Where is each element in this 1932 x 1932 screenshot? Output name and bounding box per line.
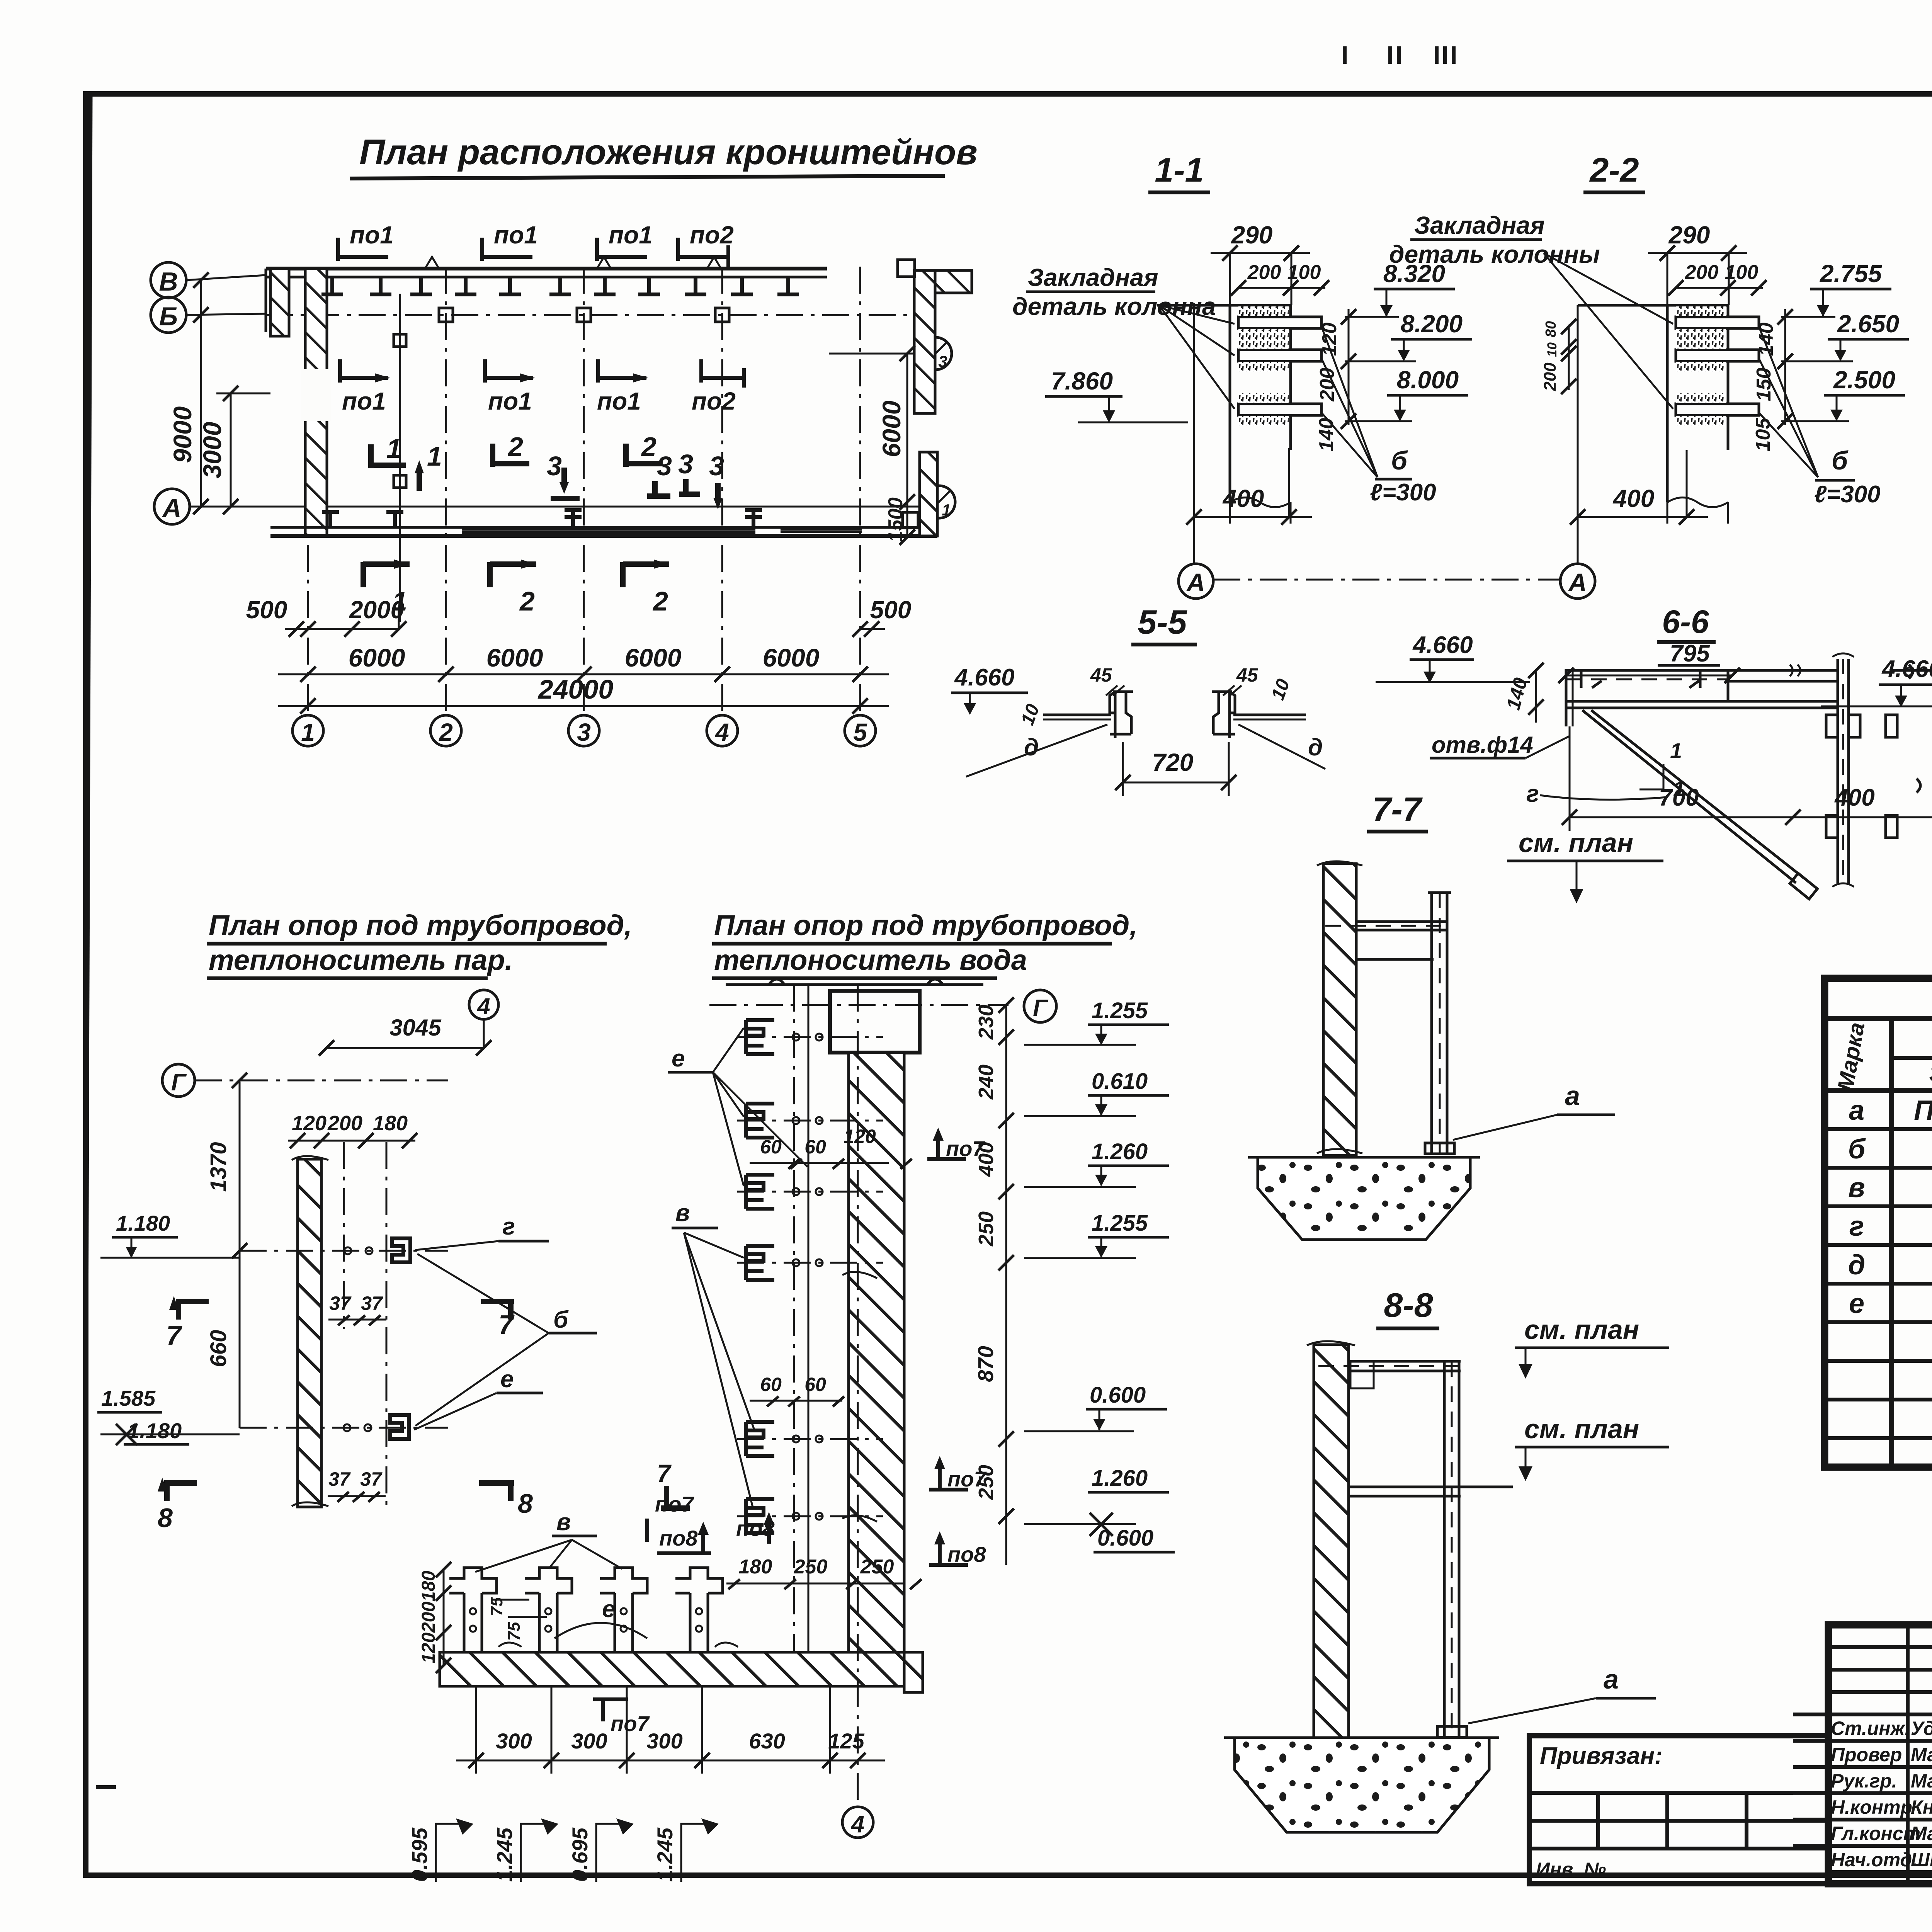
svg-text:см. план: см. план: [1524, 1315, 1639, 1345]
svg-text:2: 2: [652, 586, 668, 616]
dim 3045: [319, 1015, 492, 1056]
svg-text:деталь колонна: деталь колонна: [1012, 293, 1216, 320]
svg-text:37: 37: [328, 1468, 351, 1490]
right bottom post square: [903, 512, 918, 528]
svg-text:по1: по1: [342, 387, 386, 415]
svg-text:1.180: 1.180: [128, 1418, 182, 1443]
bracket v6: [737, 1499, 883, 1533]
dim 140 rotated: [1502, 663, 1544, 723]
section mark 3 pair: [647, 449, 700, 498]
svg-text:3: 3: [657, 451, 672, 481]
svg-text:в: в: [556, 1509, 571, 1536]
section mark 2 bottom a: [490, 560, 536, 616]
svg-text:9000: 9000: [168, 406, 197, 463]
anchor plate 3: [1676, 404, 1759, 415]
svg-text:400: 400: [1222, 485, 1264, 512]
svg-text:6000: 6000: [486, 643, 543, 672]
anchor plate 1: [1238, 317, 1321, 328]
pilaster square 3: [715, 308, 729, 322]
svg-text:1.260: 1.260: [1092, 1466, 1148, 1491]
svg-text:400: 400: [1612, 485, 1655, 512]
dim row 120 200 180: [288, 1112, 417, 1148]
label a: [1468, 1664, 1656, 1723]
svg-text:1.245: 1.245: [492, 1827, 517, 1882]
elevation 2.755: [1781, 260, 1891, 317]
label e with fan: [668, 1028, 808, 1186]
support t4: [675, 1568, 723, 1652]
base plate: [1425, 1143, 1454, 1154]
foundation: [1235, 1738, 1489, 1832]
section flag 8 right: [479, 1483, 533, 1519]
svg-text:1500: 1500: [884, 497, 907, 542]
label по2 mid: [692, 359, 744, 415]
privyazan block: [1529, 1736, 1828, 1884]
axis circle Б: [151, 297, 186, 333]
dim row 180 250 250: [726, 1556, 922, 1589]
bracket upright: [1428, 893, 1451, 1153]
table header split line: [1891, 1056, 1932, 1060]
top block: [830, 991, 920, 1053]
svg-text:А: А: [1186, 568, 1205, 597]
svg-text:3: 3: [577, 718, 591, 746]
section mark 1 bottom: [363, 560, 410, 616]
svg-text:180: 180: [418, 1571, 439, 1602]
dim 400: [1186, 448, 1312, 525]
axis circle А/1: [923, 486, 955, 518]
label по1 mid 2: [485, 359, 535, 415]
svg-text:А: А: [162, 493, 181, 523]
svg-text:720: 720: [1152, 748, 1194, 776]
dim 3000 vertical: [198, 386, 270, 514]
table Ведомость элементов outer border: [1825, 978, 1932, 1467]
svg-text:а: а: [1565, 1081, 1580, 1111]
svg-text:Штука: Штука: [1911, 1849, 1932, 1871]
left wall hatched: [305, 269, 327, 536]
label v with fan: [672, 1200, 754, 1507]
svg-text:0.600: 0.600: [1097, 1526, 1153, 1551]
pipe axis vertical left: [793, 985, 795, 1652]
svg-text:105: 105: [1752, 418, 1774, 452]
svg-text:см. план: см. план: [1519, 828, 1633, 858]
svg-text:8.000: 8.000: [1397, 366, 1459, 394]
left wall opening: [301, 369, 331, 421]
elevation 2.500: [1781, 366, 1905, 421]
svg-text:75: 75: [505, 1622, 524, 1641]
bracket e: [240, 1415, 448, 1439]
dim 6000 right vertical: [877, 346, 915, 510]
svg-text:Н.контр: Н.контр: [1831, 1796, 1912, 1818]
axis circle А: [154, 489, 190, 524]
bracket g: [240, 1238, 448, 1262]
elevation 1.260 b: [1024, 1466, 1169, 1536]
svg-text:37: 37: [360, 1468, 383, 1490]
svg-text:по1: по1: [597, 387, 641, 415]
svg-text:Б: Б: [159, 302, 178, 331]
svg-text:7.860: 7.860: [1051, 367, 1113, 395]
svg-text:60: 60: [760, 1374, 782, 1395]
label v bottom with fan: [475, 1509, 622, 1572]
svg-text:60: 60: [760, 1136, 782, 1158]
flag po7 b: [929, 1456, 987, 1491]
rotated elevation 0.695: [568, 1818, 634, 1882]
right post stub: [935, 270, 972, 293]
svg-text:в: в: [1848, 1172, 1865, 1203]
dim 1500 right vertical: [884, 497, 915, 545]
circled 4 top: [469, 990, 498, 1019]
main title: [350, 133, 978, 179]
svg-text:250: 250: [975, 1211, 998, 1247]
svg-text:3000: 3000: [198, 422, 226, 478]
svg-text:6000: 6000: [625, 643, 682, 672]
label см. план: [1507, 828, 1663, 903]
svg-text:7: 7: [498, 1310, 515, 1340]
svg-text:2.755: 2.755: [1820, 260, 1883, 287]
svg-text:4.660: 4.660: [1881, 656, 1932, 682]
svg-text:200: 200: [418, 1602, 439, 1633]
svg-text:120: 120: [418, 1633, 439, 1663]
elevation 0.600 b: [1094, 1526, 1175, 1552]
svg-text:3: 3: [547, 451, 562, 481]
left plate line: [1043, 714, 1111, 716]
svg-text:д: д: [1848, 1250, 1866, 1281]
dim 720: [1115, 742, 1236, 796]
elevation 8.000: [1345, 366, 1468, 421]
svg-text:4: 4: [477, 993, 490, 1019]
elevation 4.660: [1821, 656, 1932, 707]
dims 120 200 180 left rotated: [418, 1562, 451, 1673]
svg-text:240: 240: [975, 1065, 998, 1100]
flag po8 left: [657, 1522, 711, 1553]
svg-text:6000: 6000: [877, 400, 906, 457]
svg-text:6-6: 6-6: [1662, 604, 1709, 640]
column outline: [1157, 305, 1291, 502]
svg-text:60: 60: [804, 1136, 826, 1158]
label g: [415, 1213, 549, 1250]
dim 700 400: [1562, 726, 1932, 831]
dim row 6000x4: [278, 643, 889, 682]
dim 400: [1570, 450, 1708, 525]
label Закладная деталь колонна: [1012, 264, 1235, 409]
right bottom post hatched: [920, 452, 937, 536]
svg-text:300: 300: [571, 1729, 607, 1753]
svg-text:по8: по8: [659, 1526, 698, 1550]
dim 290: [1211, 221, 1310, 305]
wall hatched: [1314, 1345, 1349, 1747]
svg-text:630: 630: [749, 1729, 785, 1753]
svg-text:1.255: 1.255: [1092, 998, 1148, 1023]
dim 500 right: [852, 596, 911, 637]
dim row 60 60 120: [750, 1126, 912, 1169]
svg-text:1: 1: [942, 501, 951, 519]
dims 140 150 105 rotated: [1752, 309, 1793, 451]
label по2 top: [678, 221, 734, 269]
svg-text:8.200: 8.200: [1401, 310, 1463, 338]
label po7 small flag mid: [647, 1492, 694, 1542]
table row lines: [1825, 1127, 1932, 1131]
column outline: [1578, 305, 1728, 502]
bottom bracket symbols row: [322, 510, 762, 527]
label по1 mid 1: [340, 359, 390, 415]
svg-text:140: 140: [1315, 418, 1338, 452]
dim 1370 rotated: [206, 1073, 247, 1259]
top channel: [1566, 665, 1838, 701]
svg-text:0.695: 0.695: [568, 1827, 592, 1882]
svg-text:700: 700: [1659, 784, 1699, 811]
foundation top line: [1224, 1736, 1499, 1739]
svg-text:Княжицкий: Княжицкий: [1911, 1796, 1932, 1818]
axis circle В: [151, 262, 186, 298]
dim 9000 vertical: [168, 272, 209, 514]
svg-text:Машков: Машков: [1911, 1744, 1932, 1765]
svg-text:120: 120: [844, 1126, 876, 1147]
grid circle 5: [845, 715, 876, 746]
elevation 4.660: [951, 664, 1028, 715]
wall hatched: [298, 1159, 321, 1507]
label e: [414, 1366, 543, 1430]
dim 870 rotated: [973, 997, 1014, 1565]
svg-text:а: а: [1849, 1095, 1864, 1126]
svg-text:в: в: [675, 1200, 690, 1226]
svg-text:45: 45: [1236, 664, 1259, 686]
wall break marks: [498, 1272, 877, 1647]
flag po7 a: [927, 1128, 985, 1161]
svg-text:100: 100: [1725, 261, 1759, 284]
svg-text:по7: по7: [655, 1492, 694, 1516]
dims 120 200 140 rotated: [1315, 309, 1356, 451]
wall break zigzag a: [425, 257, 439, 269]
svg-text:План расположения кронштейнов: План расположения кронштейнов: [359, 133, 978, 172]
svg-text:е: е: [672, 1045, 685, 1072]
svg-text:45: 45: [1090, 664, 1112, 686]
svg-text:3: 3: [709, 451, 724, 481]
section flag 8 left: [158, 1478, 197, 1533]
corner post hatched: [270, 269, 289, 336]
svg-text:1.245: 1.245: [653, 1827, 677, 1882]
svg-text:1: 1: [386, 434, 401, 464]
svg-text:0.595: 0.595: [407, 1827, 432, 1882]
svg-text:д: д: [1308, 734, 1323, 761]
wall axis vertical: [857, 985, 859, 1805]
pipe axes vertical: [343, 1142, 345, 1329]
base plate: [1437, 1726, 1467, 1737]
svg-text:200: 200: [1541, 362, 1560, 391]
label д left: [966, 724, 1107, 777]
dim 200 100: [1231, 261, 1329, 296]
svg-text:60: 60: [804, 1374, 826, 1395]
elevation 4.660: [1376, 632, 1530, 683]
svg-text:1.260: 1.260: [1092, 1139, 1148, 1164]
svg-text:Магомедов: Магомедов: [1911, 1823, 1932, 1844]
svg-text:5: 5: [853, 718, 867, 746]
svg-text:500: 500: [870, 596, 912, 624]
top plate: [1318, 1361, 1461, 1388]
svg-text:Ст.инж.: Ст.инж.: [1831, 1718, 1910, 1739]
svg-text:795: 795: [1670, 640, 1710, 667]
lower flange line: [1356, 958, 1434, 961]
dim 795: [1558, 640, 1740, 683]
svg-text:2.650: 2.650: [1837, 310, 1899, 338]
elevation 1.255 b: [1024, 1211, 1169, 1258]
svg-text:Инв. №: Инв. №: [1536, 1859, 1606, 1880]
right profile: [1212, 692, 1235, 738]
svg-text:0.610: 0.610: [1092, 1069, 1148, 1094]
dim 500 left: [246, 596, 321, 637]
label см. план 1: [1515, 1315, 1669, 1379]
svg-text:37: 37: [329, 1293, 352, 1314]
axis line: [1193, 303, 1195, 564]
fold marks top center: [1345, 46, 1454, 64]
svg-text:по1: по1: [350, 221, 394, 249]
label б with V leader: [415, 1254, 597, 1426]
section flag 7 left: [166, 1296, 209, 1350]
svg-text:2: 2: [439, 718, 453, 746]
right post: [1826, 653, 1860, 887]
axis circle Г: [1024, 990, 1056, 1022]
table header bottom line: [1825, 1088, 1932, 1093]
svg-text:Машков: Машков: [1911, 1770, 1932, 1792]
svg-text:е: е: [1849, 1288, 1864, 1319]
rotated elevation 0.595: [407, 1818, 473, 1882]
pilaster square 2: [577, 308, 591, 322]
bracket v3: [737, 1175, 883, 1209]
svg-text:ℓ=300: ℓ=300: [1814, 481, 1881, 508]
left profile: [1110, 692, 1133, 738]
top bracket symbols row: [321, 277, 799, 294]
label б l=300: [1759, 327, 1881, 508]
svg-text:300: 300: [496, 1729, 532, 1753]
svg-text:Г: Г: [1033, 995, 1049, 1022]
anchor plate 2: [1676, 350, 1759, 361]
svg-text:г: г: [502, 1213, 515, 1240]
table title underline row: [1825, 1016, 1932, 1021]
axis circle А: [1179, 564, 1213, 599]
svg-text:125: 125: [828, 1729, 864, 1753]
axis А dash link: [1213, 579, 1560, 581]
svg-text:отв.ф14: отв.ф14: [1432, 732, 1533, 758]
svg-text:а: а: [1604, 1664, 1619, 1694]
svg-text:План опор под трубопровод,: План опор под трубопровод,: [714, 909, 1138, 941]
svg-text:500: 500: [246, 596, 287, 624]
svg-text:3045: 3045: [389, 1015, 442, 1041]
dim 660 rotated: [206, 1251, 240, 1428]
grid circle 1: [293, 715, 323, 746]
svg-text:по1: по1: [488, 387, 532, 415]
svg-text:е: е: [500, 1366, 514, 1393]
svg-text:Привязан:: Привязан:: [1540, 1743, 1663, 1769]
dim 37 37 lower: [328, 1468, 386, 1502]
section mark 2 b: [626, 432, 663, 467]
bottom wall: [270, 526, 937, 529]
section mark 2 bottom b: [623, 560, 669, 616]
svg-text:А: А: [1568, 568, 1587, 597]
label отв ф14: [1430, 732, 1570, 758]
bottom dim row 300x3 630 125: [456, 1686, 885, 1774]
svg-text:250: 250: [794, 1556, 828, 1578]
right plate line: [1233, 714, 1306, 716]
signature rows: [1828, 1739, 1932, 1743]
rotated elevation 1.245 a: [492, 1818, 558, 1882]
axis А line: [190, 506, 923, 508]
dims 230 240 400 250 250 rotated: [975, 1005, 998, 1500]
right post top square: [898, 260, 915, 277]
svg-text:ℓ=300: ℓ=300: [1370, 479, 1436, 506]
svg-text:Рук.гр.: Рук.гр.: [1831, 1770, 1897, 1792]
axis circle А/3: [919, 337, 952, 370]
svg-text:1.180: 1.180: [116, 1211, 170, 1235]
elevation 1.585: [97, 1386, 162, 1445]
column break wave: [1230, 498, 1291, 524]
column grid line 5: [859, 267, 861, 716]
svg-text:Гл.конст: Гл.конст: [1831, 1823, 1920, 1844]
svg-text:по1: по1: [609, 221, 653, 249]
foundation: [1258, 1157, 1470, 1240]
svg-text:по1: по1: [494, 221, 538, 249]
svg-text:300: 300: [646, 1729, 682, 1753]
label по1 top 3: [597, 221, 653, 261]
svg-text:1370: 1370: [206, 1142, 231, 1192]
anchor plate 1: [1676, 317, 1759, 328]
svg-text:180: 180: [739, 1556, 772, 1578]
bracket v4: [737, 1246, 883, 1280]
supports t1-t3: [449, 1568, 497, 1652]
wall hatched: [1323, 864, 1356, 1155]
elevation 8.200: [1345, 310, 1472, 361]
svg-text:Закладная: Закладная: [1414, 211, 1545, 239]
label см. план 2: [1515, 1414, 1669, 1481]
svg-text:Эскиз: Эскиз: [1929, 1060, 1932, 1087]
label po8 flag d: [736, 1512, 775, 1544]
bottom wall shading strips: [462, 529, 755, 531]
svg-text:8-8: 8-8: [1384, 1286, 1433, 1324]
svg-text:2: 2: [641, 432, 656, 462]
wall bottom strip: [440, 1652, 904, 1686]
elevation 0.600 a: [1024, 1383, 1167, 1431]
svg-text:по8: по8: [947, 1542, 986, 1566]
svg-text:290: 290: [1668, 221, 1710, 249]
svg-text:80: 80: [1543, 321, 1559, 337]
pilaster square 1: [439, 308, 453, 322]
svg-text:200: 200: [1247, 261, 1281, 284]
left wall outer line: [265, 269, 267, 332]
svg-text:6000: 6000: [349, 643, 405, 672]
slope triangle: [1639, 738, 1685, 801]
column grid line 2: [445, 267, 447, 716]
label Закладная деталь колонны: [1389, 211, 1673, 409]
svg-text:деталь колонны: деталь колонны: [1389, 240, 1600, 268]
elevation 0.610: [1024, 1069, 1169, 1116]
svg-text:см. план: см. план: [1524, 1414, 1639, 1444]
label e mid with curve: [554, 1596, 647, 1638]
elevation 2.650: [1781, 310, 1909, 361]
svg-text:200: 200: [327, 1112, 362, 1135]
svg-text:Закладная: Закладная: [1028, 264, 1158, 291]
grid circle 4: [707, 715, 738, 746]
svg-text:8: 8: [518, 1488, 533, 1519]
svg-text:Провер: Провер: [1831, 1744, 1902, 1765]
label д right: [1238, 724, 1325, 769]
svg-text:Г: Г: [171, 1069, 187, 1096]
agregat square 2: [394, 475, 406, 488]
column break wave: [1667, 498, 1728, 524]
elevation 7.860: [1045, 367, 1188, 423]
table column lines: [1889, 1019, 1894, 1467]
svg-text:7-7: 7-7: [1372, 790, 1423, 828]
mid plate: [1349, 1487, 1513, 1496]
flag po8 right: [929, 1531, 986, 1566]
svg-text:0.600: 0.600: [1090, 1383, 1146, 1408]
wall break marks: [1317, 861, 1362, 1153]
svg-text:по2: по2: [692, 387, 736, 415]
